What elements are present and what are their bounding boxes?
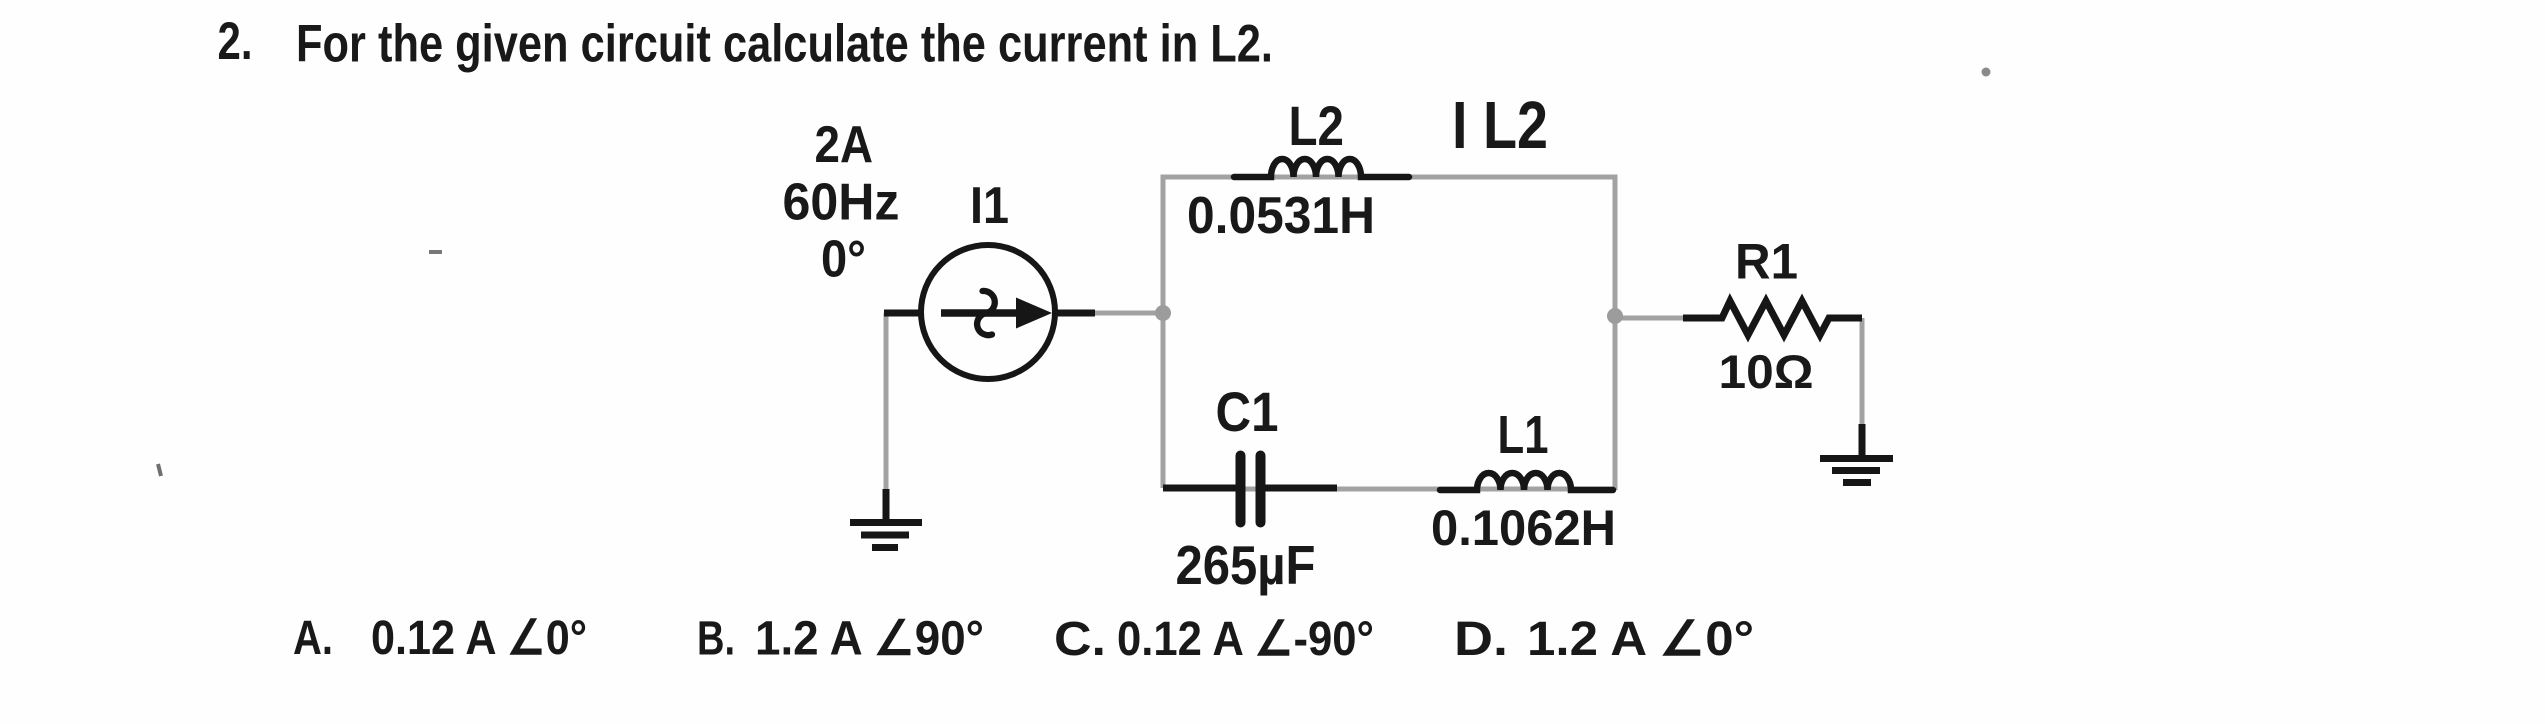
svg-text:B.: B. (697, 613, 735, 666)
wire left branch vertical (1161, 175, 1166, 489)
svg-text:I1: I1 (970, 177, 1009, 235)
answer option B (697, 613, 984, 666)
wire bottom branch (1163, 487, 1615, 492)
resistor R1 (1683, 301, 1862, 335)
svg-text:2A: 2A (815, 116, 874, 174)
wire node B to R1 (1615, 316, 1683, 321)
svg-text:1.2 A ∠90°: 1.2 A ∠90° (755, 613, 984, 666)
svg-text:10Ω: 10Ω (1719, 345, 1814, 398)
wire source left lead (884, 313, 889, 489)
inductor L2 (1234, 159, 1409, 177)
node A junction dot (1155, 305, 1171, 321)
answer option A (293, 612, 587, 665)
svg-text:A.: A. (293, 612, 333, 665)
current source I1 (884, 245, 1095, 379)
capacitor C1 (1163, 456, 1337, 523)
svg-text:L1: L1 (1498, 405, 1549, 465)
title text (218, 12, 1274, 74)
svg-text:C1: C1 (1216, 380, 1279, 443)
svg-text:2.: 2. (218, 12, 253, 71)
svg-text:0.12 A ∠0°: 0.12 A ∠0° (371, 612, 587, 665)
wire top branch (1163, 175, 1616, 180)
wire right branch vertical (1613, 175, 1618, 491)
answer option C (1054, 613, 1374, 666)
ground right (1820, 424, 1893, 483)
inductor L1 (1440, 473, 1613, 490)
wire source output to node A (1093, 311, 1163, 316)
svg-text:60Hz: 60Hz (783, 174, 900, 232)
svg-text:L2: L2 (1289, 94, 1345, 157)
svg-text:D.: D. (1454, 613, 1508, 666)
svg-text:0.0531H: 0.0531H (1187, 187, 1375, 245)
svg-text:R1: R1 (1735, 234, 1798, 290)
wire R1 to ground (1860, 318, 1865, 427)
node B junction dot (1607, 308, 1623, 324)
svg-text:I L2: I L2 (1452, 88, 1548, 163)
ground left (850, 489, 922, 548)
svg-text:1.2 A ∠0°: 1.2 A ∠0° (1527, 613, 1754, 666)
svg-text:0°: 0° (821, 231, 866, 289)
svg-text:For the given circuit calculat: For the given circuit calculate the curr… (296, 15, 1273, 74)
svg-text:0.12 A ∠-90°: 0.12 A ∠-90° (1117, 613, 1374, 666)
svg-text:0.1062H: 0.1062H (1431, 500, 1616, 556)
answer option D (1454, 613, 1754, 666)
svg-text:C.: C. (1054, 613, 1106, 666)
svg-text:265µF: 265µF (1176, 534, 1316, 596)
